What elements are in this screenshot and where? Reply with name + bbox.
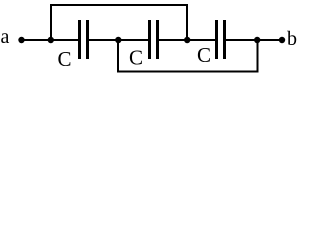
svg-text:a: a	[1, 26, 10, 48]
svg-text:b: b	[287, 28, 297, 50]
svg-text:C: C	[58, 47, 72, 71]
svg-text:C: C	[129, 46, 143, 70]
svg-text:C: C	[197, 43, 211, 67]
